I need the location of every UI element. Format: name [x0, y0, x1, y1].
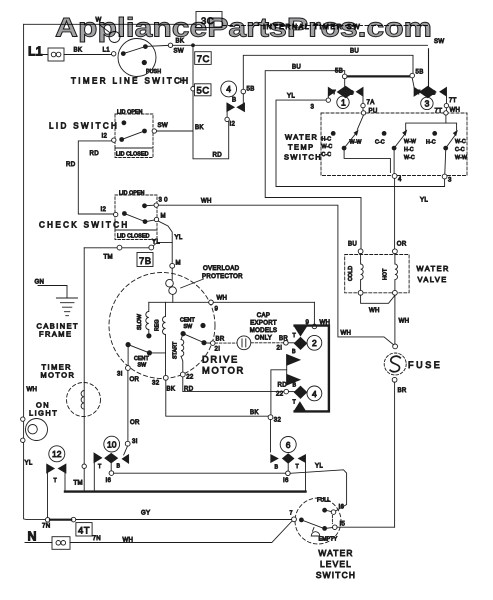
svg-text:3: 3 — [425, 99, 430, 109]
wire 5B thick bus — [347, 75, 410, 77]
svg-text:LID CLOSED: LID CLOSED — [117, 234, 150, 240]
connector 4 bottom flag — [295, 402, 306, 411]
box 7B — [137, 253, 153, 267]
ground cabinet frame — [38, 286, 67, 299]
svg-text:HOT: HOT — [383, 268, 389, 280]
svg-text:BU: BU — [292, 64, 301, 71]
svg-text:H-C: H-C — [426, 140, 436, 146]
node junction — [191, 43, 195, 47]
wire 32 down to connector 6 — [270, 420, 272, 452]
wire I5 to BR — [337, 526, 395, 528]
svg-text:WH: WH — [450, 107, 461, 114]
svg-text:3 0: 3 0 — [159, 197, 169, 204]
wire YL to water level — [290, 470, 346, 511]
switch water level arm — [301, 520, 322, 528]
connector L1 terminal block — [43, 54, 112, 56]
connector 12 flags — [47, 464, 55, 473]
svg-text:W-W: W-W — [455, 155, 467, 161]
timer motor circle — [67, 383, 101, 417]
node 7N — [45, 518, 50, 523]
svg-text:5B: 5B — [416, 69, 424, 76]
connector 4 diamond — [294, 386, 306, 398]
svg-text:WH: WH — [399, 318, 410, 325]
node cold top — [358, 249, 363, 254]
coil cold — [361, 254, 364, 291]
connector 10 flags — [124, 446, 128, 455]
node M terminal — [170, 263, 175, 268]
node 5C terminal — [191, 87, 195, 91]
connector circle 10 — [104, 436, 120, 452]
drive motor dashed circle — [109, 273, 215, 379]
svg-text:12: 12 — [52, 449, 62, 459]
wire BR down — [394, 382, 396, 527]
wire SW output — [148, 44, 169, 47]
svg-text:I2: I2 — [101, 206, 107, 213]
svg-text:C-C: C-C — [375, 140, 385, 146]
wire motor top line — [149, 301, 315, 303]
coil timer motor — [81, 391, 84, 410]
diaphragm dome — [311, 528, 320, 537]
svg-text:WATER: WATER — [417, 264, 450, 273]
svg-text:SW: SW — [158, 122, 168, 129]
svg-text:BR: BR — [279, 335, 288, 342]
capacitor export — [215, 342, 237, 344]
svg-text:BK: BK — [167, 386, 176, 393]
svg-text:CHECK SWITCH: CHECK SWITCH — [39, 221, 130, 230]
svg-text:5B: 5B — [247, 86, 255, 93]
wire overload pointer — [181, 279, 204, 288]
switch group B — [382, 131, 387, 136]
wire 7T stub — [446, 96, 448, 103]
svg-text:7N: 7N — [93, 535, 101, 542]
svg-text:B: B — [117, 464, 121, 470]
svg-text:YL: YL — [315, 463, 323, 470]
svg-text:FULL: FULL — [317, 498, 330, 504]
wire WH to fuse — [394, 295, 396, 344]
svg-text:BU: BU — [350, 48, 359, 55]
wire 7N thick — [50, 519, 71, 521]
svg-text:SLOW: SLOW — [137, 314, 143, 330]
svg-text:LIGHT: LIGHT — [29, 409, 58, 418]
svg-text:GN: GN — [35, 279, 45, 286]
svg-text:B: B — [232, 97, 236, 104]
node pivot 7 — [292, 517, 297, 522]
svg-text:YL: YL — [420, 197, 428, 204]
wire timer motor vertical — [83, 248, 85, 464]
svg-text:OVERLOAD: OVERLOAD — [203, 265, 240, 272]
svg-text:B: B — [293, 382, 297, 388]
svg-text:TM: TM — [104, 254, 113, 261]
svg-text:7: 7 — [290, 511, 293, 517]
connector circle 4 — [307, 386, 322, 401]
connector 4 flags — [227, 103, 234, 112]
node 5B left — [241, 89, 246, 94]
svg-text:I2: I2 — [230, 121, 236, 128]
wire internal timer switches dashed label line — [222, 25, 429, 27]
wire 12 left flag to 7N — [47, 473, 49, 518]
switch lid switch contacts — [122, 120, 127, 125]
svg-text:PROTECTOR: PROTECTOR — [202, 273, 243, 280]
node PU entry — [361, 111, 365, 115]
svg-text:YL: YL — [25, 460, 33, 467]
wire W drop to timer line switch — [99, 24, 110, 32]
svg-text:START: START — [173, 341, 179, 359]
svg-text:B: B — [275, 464, 279, 470]
node W loop — [109, 32, 120, 43]
svg-text:W-W: W-W — [404, 139, 416, 145]
wire TM hook — [153, 242, 172, 245]
svg-text:M: M — [176, 260, 181, 267]
svg-text:C-C: C-C — [322, 152, 332, 158]
wire TM horizontal — [84, 247, 149, 249]
svg-text:CENT: CENT — [180, 318, 195, 324]
svg-text:2I: 2I — [277, 344, 283, 351]
connector N terminal block — [52, 537, 70, 550]
svg-text:WH: WH — [123, 537, 134, 544]
svg-text:SW: SW — [174, 48, 184, 55]
svg-text:WH: WH — [27, 386, 38, 393]
svg-text:GY: GY — [141, 510, 150, 517]
connector circle 12 — [49, 446, 65, 462]
wire 6 right flag to bus — [305, 462, 307, 490]
svg-text:W-C: W-C — [322, 144, 333, 150]
wire WH check switch right — [158, 205, 393, 345]
connector 6 flags — [271, 455, 278, 463]
node terminal 22 — [180, 372, 185, 377]
svg-text:BK: BK — [195, 124, 204, 131]
svg-text:YL: YL — [152, 239, 160, 246]
svg-text:COLD: COLD — [348, 266, 354, 281]
svg-text:L1: L1 — [103, 47, 111, 54]
svg-text:B: B — [432, 91, 436, 97]
svg-text:1: 1 — [341, 98, 346, 108]
wire N line — [25, 521, 292, 542]
svg-text:WH: WH — [341, 330, 352, 337]
svg-text:LEVEL: LEVEL — [320, 559, 352, 569]
connector circle 6 — [280, 437, 296, 453]
node terminal 2I — [284, 341, 289, 346]
svg-text:9: 9 — [215, 306, 219, 313]
switch check switch box — [115, 195, 157, 230]
node terminal 9 — [209, 300, 214, 305]
on light bulb — [26, 419, 48, 441]
wire RD lid to check — [78, 141, 113, 214]
svg-text:N: N — [28, 530, 37, 544]
svg-text:B: B — [350, 91, 354, 97]
wire OR to 31 — [127, 347, 129, 365]
wire YL from connector 1 — [327, 96, 329, 98]
box 3C — [196, 12, 222, 28]
svg-text:H-C: H-C — [404, 147, 414, 153]
fuse body — [384, 353, 406, 375]
node terminal 32 — [163, 375, 168, 380]
svg-text:7A: 7A — [367, 99, 376, 106]
coil slow — [146, 302, 149, 333]
svg-text:B: B — [292, 349, 296, 355]
svg-text:OR: OR — [130, 419, 140, 426]
svg-text:CAP: CAP — [257, 312, 270, 319]
box water temp switch dashed — [321, 113, 467, 176]
svg-text:SW: SW — [434, 38, 444, 45]
svg-text:4: 4 — [312, 389, 317, 399]
wire I6 bus — [114, 472, 286, 474]
connector 2/4 bracket — [295, 326, 329, 412]
svg-text:5C: 5C — [197, 86, 210, 97]
svg-text:W-W: W-W — [350, 140, 362, 146]
svg-text:BR: BR — [398, 387, 407, 394]
svg-text:I6: I6 — [339, 504, 345, 511]
svg-text:REG: REG — [155, 319, 161, 331]
svg-text:L1: L1 — [28, 45, 43, 59]
svg-text:EMPTY: EMPTY — [319, 537, 338, 543]
connector circle 3 — [421, 97, 433, 109]
node 5B bus right — [410, 73, 415, 78]
svg-text:32: 32 — [274, 417, 282, 424]
box 7C — [195, 52, 212, 65]
svg-text:WH: WH — [201, 198, 212, 205]
svg-text:H-C: H-C — [322, 137, 332, 143]
connector 2 top flag — [295, 327, 307, 336]
switch timer line switch — [118, 39, 156, 77]
switch group A — [357, 115, 363, 129]
svg-text:CENT: CENT — [134, 356, 149, 362]
switch group C — [432, 131, 437, 136]
svg-text:BU: BU — [348, 241, 357, 248]
on light terminals — [21, 417, 25, 421]
wire M to overload — [171, 268, 173, 279]
connector circle 2 — [307, 335, 322, 350]
box 5C — [195, 84, 212, 96]
box 4T — [76, 523, 92, 536]
node 5B bus left — [342, 74, 347, 79]
svg-text:BK: BK — [74, 47, 83, 54]
svg-text:SW: SW — [138, 363, 147, 369]
svg-text:4T: 4T — [78, 526, 90, 537]
overload protector — [166, 279, 174, 287]
node cold bottom — [358, 290, 363, 295]
svg-text:TIMER LINE SWITCH: TIMER LINE SWITCH — [71, 77, 190, 86]
wire 7C/5C vertical — [192, 45, 194, 131]
wire 7A stub — [362, 96, 364, 103]
node terminal 31 — [125, 441, 130, 446]
svg-text:7T: 7T — [449, 97, 457, 104]
node hot top — [393, 249, 398, 254]
svg-text:I5: I5 — [340, 521, 346, 528]
connector 1 diamond — [344, 79, 346, 87]
svg-text:LID CLOSED: LID CLOSED — [116, 152, 149, 158]
switch check switch contacts — [114, 212, 118, 216]
wire bus thick lower — [65, 490, 306, 492]
svg-text:I6: I6 — [106, 477, 112, 484]
wire OR down to connector 10 — [127, 370, 129, 441]
svg-text:W-C: W-C — [455, 139, 466, 145]
connector 2 diamond — [294, 337, 306, 349]
wire I6 stub — [110, 463, 112, 471]
svg-text:M: M — [161, 213, 166, 220]
water level switch dashed circle — [295, 498, 341, 544]
svg-text:VALVE: VALVE — [418, 275, 448, 284]
svg-text:LID SWITCH: LID SWITCH — [49, 122, 119, 131]
svg-text:YL: YL — [287, 93, 295, 100]
svg-text:7N: 7N — [42, 523, 50, 530]
connector circle 4 — [221, 81, 237, 97]
svg-text:YL: YL — [175, 234, 183, 241]
wire M down from check switch — [158, 221, 172, 263]
svg-text:C-C: C-C — [455, 147, 465, 153]
svg-text:3I: 3I — [117, 371, 123, 378]
wire 5B up-over to right — [243, 55, 413, 89]
svg-text:ONLY: ONLY — [255, 335, 272, 342]
svg-text:RD: RD — [66, 161, 76, 168]
node fuse bottom — [392, 377, 397, 382]
svg-text:WATER: WATER — [318, 548, 353, 558]
svg-text:TM: TM — [74, 480, 83, 487]
svg-text:4: 4 — [398, 176, 402, 183]
svg-text:10: 10 — [107, 439, 117, 449]
svg-text:LID OPEN: LID OPEN — [119, 191, 145, 197]
svg-text:RD: RD — [90, 150, 100, 157]
svg-text:BK: BK — [250, 409, 259, 416]
node I6 connector 6 — [287, 463, 289, 471]
svg-text:PUSH: PUSH — [146, 69, 161, 75]
svg-text:SWITCH: SWITCH — [284, 153, 322, 162]
switch cent sw lower — [126, 342, 131, 347]
svg-text:TEMP: TEMP — [288, 143, 315, 152]
svg-text:22: 22 — [276, 390, 284, 397]
wire BU outer path — [265, 71, 361, 249]
svg-text:FRAME: FRAME — [39, 330, 72, 339]
box water valve dashed — [345, 255, 409, 293]
svg-text:7B: 7B — [139, 256, 152, 267]
svg-text:W-C: W-C — [404, 155, 415, 161]
svg-text:AppliancePartsPros.com: AppliancePartsPros.com — [55, 12, 432, 42]
node TM bottom — [82, 464, 86, 468]
wire RD to connector — [183, 377, 284, 392]
svg-text:3I: 3I — [132, 438, 138, 445]
svg-text:WH: WH — [369, 307, 380, 314]
svg-text:4: 4 — [226, 84, 231, 94]
contact full — [322, 508, 327, 513]
svg-text:BR: BR — [216, 336, 225, 343]
svg-text:I6: I6 — [283, 477, 289, 484]
coil reg — [163, 302, 166, 352]
svg-text:22: 22 — [186, 374, 194, 381]
svg-text:OR: OR — [130, 376, 140, 383]
switch lid switch box — [115, 114, 153, 148]
coil hot — [395, 254, 398, 291]
wire left border WH/YL — [24, 24, 46, 519]
node terminal 22 — [284, 389, 289, 394]
svg-text:RD: RD — [213, 152, 223, 159]
svg-text:MOTOR: MOTOR — [41, 371, 76, 380]
coil start — [181, 334, 184, 373]
svg-text:7C: 7C — [197, 54, 210, 65]
wire top border W — [24, 23, 196, 25]
wire OR from terminal 4 — [394, 178, 396, 249]
svg-text:6: 6 — [286, 440, 291, 450]
svg-text:DRIVE: DRIVE — [202, 355, 239, 365]
svg-text:3: 3 — [311, 104, 315, 111]
wire 10 left flag to bus — [93, 463, 95, 491]
svg-text:MOTOR: MOTOR — [202, 366, 245, 376]
wire WH valve join — [361, 295, 395, 303]
svg-text:I2: I2 — [102, 133, 108, 140]
wire to connector 6 — [271, 370, 287, 415]
connector 3 diamond — [428, 49, 430, 87]
wire I2 stub — [226, 112, 228, 118]
svg-text:3: 3 — [448, 177, 452, 184]
svg-text:RD: RD — [278, 381, 288, 388]
connector circle 1 — [337, 96, 349, 108]
svg-text:WATER: WATER — [285, 133, 318, 142]
wire BK to connector — [166, 380, 268, 416]
svg-text:EXPORT: EXPORT — [250, 320, 277, 327]
svg-text:OR: OR — [397, 241, 407, 248]
node terminal 32 connector 6 — [268, 415, 273, 420]
wire GY — [76, 519, 292, 521]
node hot bottom — [393, 290, 398, 295]
wire BK lid switch to connector 4 — [157, 122, 229, 159]
svg-text:H: H — [180, 78, 185, 85]
node WH entry — [444, 111, 448, 115]
svg-text:2I: 2I — [215, 346, 221, 353]
node fuse top — [393, 344, 398, 349]
node terminal 3 — [442, 174, 447, 179]
svg-text:SW: SW — [184, 324, 193, 330]
svg-text:FUSE: FUSE — [408, 360, 442, 370]
node terminal 4 — [392, 174, 397, 179]
svg-text:WH: WH — [217, 295, 228, 302]
svg-text:MODELS: MODELS — [250, 327, 278, 334]
svg-text:LID OPEN: LID OPEN — [117, 110, 143, 116]
svg-text:2: 2 — [312, 338, 317, 348]
wire 12 right flag to bus — [64, 473, 66, 491]
svg-text:SWITCH: SWITCH — [316, 570, 356, 580]
svg-text:32: 32 — [152, 380, 160, 387]
connector middle flags — [287, 355, 300, 366]
wire WH to connector 2 — [313, 302, 315, 324]
